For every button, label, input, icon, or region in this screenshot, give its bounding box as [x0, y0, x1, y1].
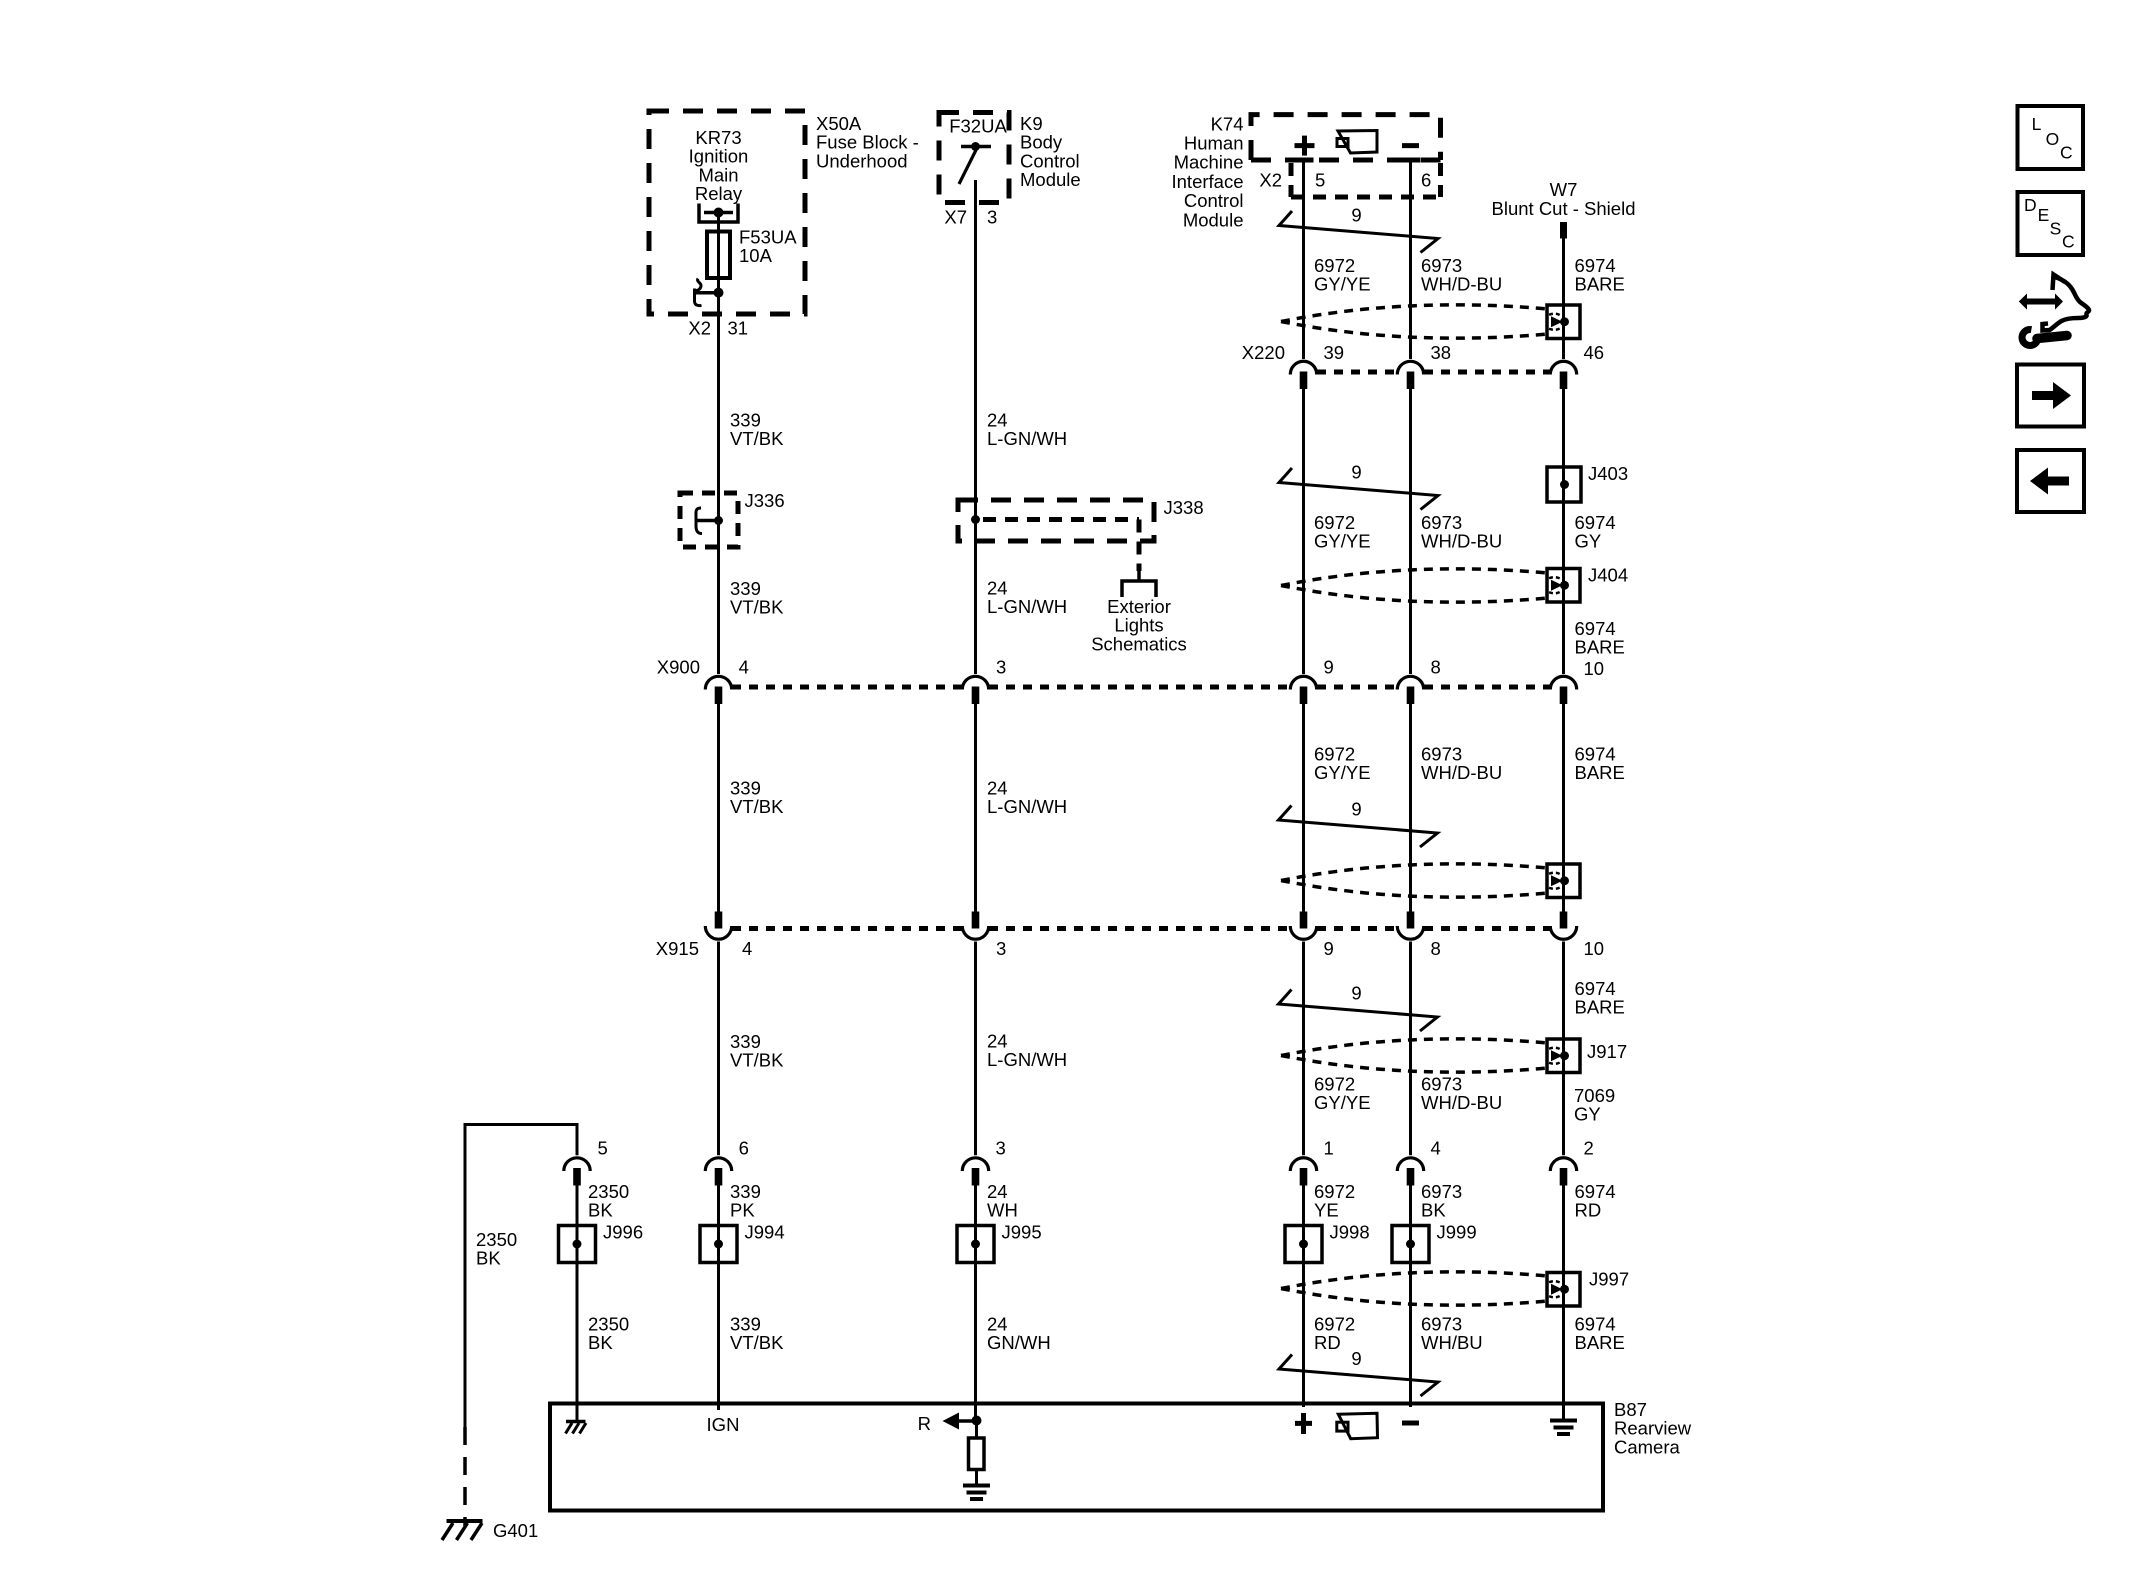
wire fuse to box edge [717, 288, 720, 318]
wire 6973 K74 to X220 [1409, 160, 1412, 360]
svg-text:Relay: Relay [695, 183, 743, 204]
svg-text:G401: G401 [493, 1520, 538, 1541]
connector X900 pin 4 [705, 676, 731, 689]
connector X220 pin 46 [1550, 361, 1576, 374]
svg-text:Underhood: Underhood [816, 150, 908, 171]
splice J336 bar [697, 519, 715, 523]
svg-text:W7: W7 [1550, 179, 1578, 200]
HMI K74 bottom edge dashes at wires [1294, 158, 1314, 163]
fuse F53UA body [707, 232, 730, 279]
svg-text:BK: BK [588, 1200, 613, 1221]
svg-text:PK: PK [730, 1200, 755, 1221]
svg-text:Control: Control [1184, 190, 1244, 211]
twisted pair symbol 9 fifth [1279, 1355, 1438, 1397]
connector X900 dashed line [732, 685, 962, 690]
arrow R video out [943, 1413, 960, 1430]
wire inside fuse [717, 222, 720, 288]
ground G401 chassis symbol [447, 1519, 483, 1523]
wire 6972 pin to camera [1302, 1184, 1305, 1407]
svg-text:Camera: Camera [1614, 1436, 1681, 1457]
svg-text:X220: X220 [1242, 342, 1285, 363]
ground camera internal earth [963, 1484, 990, 1488]
icon DESC box [2018, 192, 2084, 255]
connector X220 dashed line [1317, 370, 1397, 375]
svg-text:J995: J995 [1002, 1222, 1042, 1243]
shield drain symbol mid [1547, 864, 1580, 898]
icon repair double arrow [2019, 294, 2063, 310]
connector X220 pin 38 [1397, 361, 1423, 374]
svg-text:WH/D-BU: WH/D-BU [1421, 762, 1502, 783]
switch F32UA blade [959, 150, 976, 184]
svg-text:6: 6 [739, 1138, 749, 1159]
svg-text:J338: J338 [1164, 497, 1204, 518]
svg-text:VT/BK: VT/BK [730, 1332, 784, 1353]
svg-text:WH/BU: WH/BU [1421, 1332, 1483, 1353]
wire 6972 X220 to X900 [1302, 389, 1305, 674]
connector pin 5 camera [564, 1158, 590, 1171]
shield drain symbol J997 [1547, 1273, 1580, 1307]
svg-text:K74: K74 [1211, 113, 1244, 134]
splice J994 [700, 1226, 737, 1263]
svg-text:BK: BK [588, 1332, 613, 1353]
minus sign K74 camera return [1402, 143, 1419, 148]
connector pin 4 camera [1397, 1158, 1423, 1171]
svg-text:VT/BK: VT/BK [730, 1050, 784, 1071]
svg-text:5: 5 [1315, 170, 1325, 191]
resistor camera termination [975, 1421, 978, 1439]
wire 6972 K74 to X220 [1302, 160, 1305, 360]
icon prev page arrow [2030, 468, 2069, 495]
svg-text:GY/YE: GY/YE [1314, 531, 1371, 552]
svg-text:8: 8 [1431, 938, 1441, 959]
svg-text:Module: Module [1020, 169, 1081, 190]
svg-text:X2: X2 [688, 318, 711, 339]
svg-text:S: S [2050, 219, 2062, 239]
svg-text:2: 2 [1584, 1138, 1594, 1159]
wire 2350 pin to camera [576, 1184, 579, 1422]
svg-text:31: 31 [728, 318, 749, 339]
svg-text:J994: J994 [745, 1222, 785, 1243]
shield ellipse J404 [1281, 569, 1548, 586]
shield drain symbol at X220 [1547, 305, 1580, 339]
svg-text:GY/YE: GY/YE [1314, 762, 1371, 783]
relay switch hook upper [696, 279, 701, 291]
svg-text:D: D [2024, 195, 2037, 215]
connector X900 pin 3 [962, 676, 988, 689]
switch F32UA bar [961, 145, 991, 149]
svg-text:BK: BK [476, 1248, 501, 1269]
twisted pair symbol 9 third [1279, 806, 1438, 848]
svg-text:J997: J997 [1589, 1269, 1629, 1290]
connector X2 left dash [1289, 163, 1294, 197]
connector pin 1 camera [1290, 1158, 1316, 1171]
svg-text:J336: J336 [745, 490, 785, 511]
svg-text:F32UA: F32UA [949, 116, 1007, 137]
camera internal chassis ground pin5 [566, 1420, 586, 1424]
blunt cut stub W7 [1560, 222, 1567, 239]
wire 24 X915 to bottom pin [974, 942, 977, 1156]
svg-text:Module: Module [1183, 209, 1244, 230]
svg-text:VT/BK: VT/BK [730, 597, 784, 618]
svg-text:9: 9 [1351, 983, 1361, 1004]
icon next page box [2017, 365, 2084, 427]
svg-text:WH/D-BU: WH/D-BU [1421, 1092, 1502, 1113]
svg-text:3: 3 [996, 938, 1006, 959]
svg-text:J999: J999 [1437, 1222, 1477, 1243]
icon repair panel outline [2053, 275, 2066, 291]
svg-text:J917: J917 [1587, 1041, 1627, 1062]
svg-text:Human: Human [1184, 133, 1244, 154]
icon prev page box [2017, 450, 2084, 512]
svg-text:10A: 10A [739, 245, 773, 266]
connector X915 pin 10 [1560, 912, 1568, 929]
wire 2350 branch down to pin 5 [576, 1123, 579, 1155]
twisted pair symbol 9 top [1279, 211, 1438, 253]
svg-text:BARE: BARE [1575, 274, 1625, 295]
svg-text:X7: X7 [944, 207, 967, 228]
svg-text:39: 39 [1324, 342, 1345, 363]
shield drain symbol J917 [1547, 1039, 1580, 1073]
svg-text:9: 9 [1351, 205, 1361, 226]
HMI K74 box bottom edge [1251, 158, 1441, 163]
connector pin 2 camera [1550, 1158, 1576, 1171]
svg-text:WH: WH [987, 1200, 1018, 1221]
wire 339 X915 to bottom pin [717, 942, 720, 1156]
splice J338 dashed box [958, 500, 1154, 541]
svg-text:L-GN/WH: L-GN/WH [987, 596, 1067, 617]
svg-text:Blunt Cut - Shield: Blunt Cut - Shield [1492, 198, 1636, 219]
camera B87 box [550, 1404, 1603, 1511]
svg-text:9: 9 [1351, 1348, 1361, 1369]
HMI K74 dashed box [1251, 115, 1441, 160]
svg-text:WH/D-BU: WH/D-BU [1421, 531, 1502, 552]
icon LOC box [2018, 106, 2084, 169]
twisted pair symbol 9 fourth [1279, 990, 1438, 1032]
wire 6973 X900 to X915 [1409, 704, 1412, 912]
wire 6973 pin to camera [1409, 1184, 1412, 1407]
svg-text:9: 9 [1351, 799, 1361, 820]
connector X2 bottom dashed line [1291, 195, 1445, 200]
svg-text:L: L [2032, 114, 2042, 134]
connector pin 6 camera [705, 1158, 731, 1171]
wire 339 X900 to X915 [717, 704, 720, 912]
connector X915 pin 3 [972, 912, 980, 929]
svg-text:GY: GY [1574, 1104, 1601, 1125]
svg-text:L-GN/WH: L-GN/WH [987, 1049, 1067, 1070]
wire 6972 X915 to bottom pin [1302, 942, 1305, 1156]
connector X2 right dash [1438, 163, 1443, 197]
connector X900 pin 10 [1550, 676, 1576, 689]
splice J996 [559, 1226, 596, 1263]
svg-text:Interface: Interface [1172, 171, 1244, 192]
svg-text:9: 9 [1324, 938, 1334, 959]
relay KR73 contact bracket [699, 204, 738, 223]
wire 2350 horizontal to G401 branch [465, 1123, 577, 1126]
svg-text:J403: J403 [1588, 463, 1628, 484]
shield ellipse at X220 [1281, 305, 1548, 322]
relay KR73 contact bar [704, 211, 733, 215]
junction dot relay output [714, 288, 724, 298]
connector X900 pin 9 [1290, 676, 1316, 689]
svg-text:BARE: BARE [1575, 1332, 1625, 1353]
svg-text:GN/WH: GN/WH [987, 1332, 1051, 1353]
wire 339 pin to camera [717, 1184, 720, 1410]
svg-text:BK: BK [1421, 1200, 1446, 1221]
svg-text:38: 38 [1431, 342, 1452, 363]
svg-text:10: 10 [1584, 658, 1605, 679]
shield drain symbol J404 [1547, 569, 1580, 603]
svg-text:L-GN/WH: L-GN/WH [987, 428, 1067, 449]
plus sign camera [1295, 1421, 1312, 1426]
wire 6974 X915 to bottom pin [1562, 942, 1565, 1156]
svg-text:C: C [2062, 232, 2075, 252]
wire 6974 X220 to X900 [1562, 389, 1565, 674]
svg-text:3: 3 [987, 207, 997, 228]
splice J998 [1285, 1226, 1322, 1263]
svg-text:3: 3 [996, 1138, 1006, 1159]
svg-text:IGN: IGN [707, 1414, 740, 1435]
splice J999 [1392, 1226, 1429, 1263]
connector X915 pin 8 [1407, 912, 1415, 929]
svg-text:RD: RD [1314, 1332, 1341, 1353]
svg-text:E: E [2038, 205, 2050, 225]
svg-text:WH/D-BU: WH/D-BU [1421, 274, 1502, 295]
connector pin 3 camera [962, 1158, 988, 1171]
svg-text:X915: X915 [656, 938, 699, 959]
wire 339 branch KR73 to X900 [717, 314, 720, 674]
svg-text:6: 6 [1421, 170, 1431, 191]
plus sign K74 camera supply [1295, 143, 1315, 148]
connector X915 pin 9 [1300, 912, 1308, 929]
svg-text:GY/YE: GY/YE [1314, 1092, 1371, 1113]
connector X900 pin 8 [1397, 676, 1423, 689]
svg-text:R: R [918, 1413, 931, 1434]
svg-text:4: 4 [742, 938, 752, 959]
wire 6972 X900 to X915 [1302, 704, 1305, 912]
svg-text:4: 4 [1431, 1138, 1441, 1159]
svg-text:4: 4 [739, 657, 749, 678]
camera icon B87 [1338, 1413, 1377, 1438]
svg-text:BARE: BARE [1575, 637, 1625, 658]
wire 6974 X900 to X915 [1562, 704, 1565, 912]
junction dot R [972, 1416, 982, 1426]
ground shield earth symbol [1550, 1419, 1577, 1423]
wire 6974 blunt cut to X220 [1562, 238, 1565, 359]
svg-text:3: 3 [996, 657, 1006, 678]
svg-text:J998: J998 [1330, 1222, 1370, 1243]
wire 6973 X915 to bottom pin [1409, 942, 1412, 1156]
svg-text:8: 8 [1431, 657, 1441, 678]
svg-text:L-GN/WH: L-GN/WH [987, 796, 1067, 817]
relay switch hook lower [695, 289, 702, 306]
svg-text:VT/BK: VT/BK [730, 796, 784, 817]
svg-text:1: 1 [1324, 1138, 1334, 1159]
shield ellipse J997 [1281, 1272, 1548, 1289]
switch F32UA dot [971, 142, 980, 151]
svg-text:5: 5 [598, 1138, 608, 1159]
relay switch bar [695, 291, 715, 295]
minus sign camera [1402, 1421, 1419, 1426]
splice J336 dot [714, 516, 723, 525]
wire switch to box edge [974, 180, 977, 207]
splice J336 dashed box [680, 493, 738, 547]
wire relay to fuse [717, 213, 720, 233]
connector X915 dashed line [732, 926, 962, 931]
wire 24 X900 to X915 [974, 704, 977, 912]
shield ellipse mid [1281, 864, 1548, 881]
svg-text:9: 9 [1351, 462, 1361, 483]
svg-text:J404: J404 [1588, 565, 1628, 586]
icon repair wrench [2022, 329, 2038, 345]
bracket to exterior lights [1122, 571, 1156, 597]
svg-text:10: 10 [1584, 938, 1605, 959]
svg-text:BARE: BARE [1575, 997, 1625, 1018]
svg-text:GY: GY [1575, 531, 1602, 552]
connector X915 pin 4 [715, 912, 723, 929]
wire 24 BCM to X900 [974, 204, 977, 674]
shield ellipse J917 [1281, 1039, 1548, 1056]
wire 6974 pin to camera [1562, 1184, 1565, 1421]
svg-text:9: 9 [1324, 657, 1334, 678]
splice J995 [957, 1226, 994, 1263]
connector X220 pin 39 [1290, 361, 1316, 374]
svg-text:GY/YE: GY/YE [1314, 274, 1371, 295]
camera icon K74 [1338, 131, 1377, 154]
fuse block X50A dashed box [649, 111, 805, 314]
relay KR73 contact dot [714, 208, 724, 218]
wire 2350 dashed to G401 [463, 1427, 467, 1526]
svg-text:YE: YE [1314, 1200, 1339, 1221]
splice J336 crimp symbol [696, 508, 702, 534]
wire 6973 X220 to X900 [1409, 389, 1412, 674]
svg-text:J996: J996 [603, 1222, 643, 1243]
svg-text:X900: X900 [657, 657, 700, 678]
svg-text:VT/BK: VT/BK [730, 428, 784, 449]
svg-text:46: 46 [1584, 342, 1605, 363]
splice J338 inner dashed branch [983, 517, 1139, 522]
wire resistor to ground [975, 1470, 978, 1487]
svg-text:BARE: BARE [1575, 762, 1625, 783]
svg-text:Machine: Machine [1174, 152, 1244, 173]
twisted pair symbol 9 second [1279, 468, 1438, 510]
svg-text:O: O [2046, 129, 2060, 149]
splice J338 dot [971, 515, 980, 524]
svg-text:X2: X2 [1259, 170, 1282, 191]
icon next page arrow [2032, 382, 2071, 409]
BCM F32UA dashed box [939, 113, 1009, 203]
svg-text:RD: RD [1575, 1200, 1602, 1221]
svg-text:C: C [2060, 143, 2073, 163]
splice J403 box [1547, 467, 1581, 502]
wire 24 pin to camera [974, 1184, 977, 1421]
svg-text:Schematics: Schematics [1091, 633, 1187, 654]
